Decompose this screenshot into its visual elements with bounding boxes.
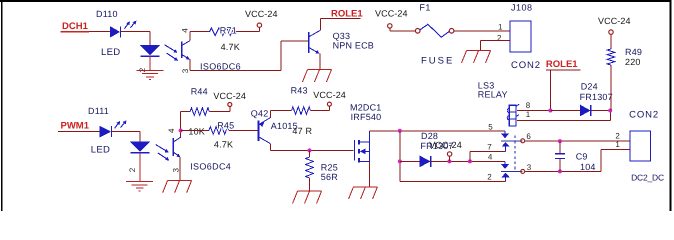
svg-text:R45: R45	[217, 120, 234, 130]
svg-text:R44: R44	[191, 86, 208, 96]
svg-text:Q42: Q42	[251, 109, 269, 119]
svg-text:4.7K: 4.7K	[221, 42, 240, 52]
svg-text:ROLE1: ROLE1	[546, 59, 578, 70]
svg-text:1: 1	[615, 140, 620, 149]
svg-text:1: 1	[526, 110, 531, 119]
svg-text:D24: D24	[581, 81, 598, 91]
svg-text:D111: D111	[88, 106, 109, 116]
svg-text:4: 4	[181, 28, 190, 33]
svg-text:FR1307: FR1307	[580, 92, 613, 102]
svg-text:D110: D110	[96, 9, 118, 19]
svg-text:VCC-24: VCC-24	[598, 16, 631, 26]
svg-text:VCC-24: VCC-24	[429, 140, 462, 150]
svg-text:R49: R49	[625, 47, 642, 57]
svg-text:R25: R25	[321, 162, 338, 172]
svg-text:F1: F1	[419, 3, 431, 13]
svg-text:220: 220	[625, 57, 641, 67]
svg-text:DC2_DC: DC2_DC	[631, 172, 664, 182]
svg-text:C9: C9	[576, 151, 588, 161]
svg-text:ROLE1: ROLE1	[331, 9, 363, 20]
svg-text:DCH1: DCH1	[62, 21, 89, 32]
svg-text:2: 2	[128, 167, 137, 172]
svg-text:R43: R43	[291, 85, 308, 95]
svg-text:R71: R71	[220, 25, 237, 35]
svg-text:FUSE: FUSE	[421, 55, 454, 66]
svg-text:VCC-24: VCC-24	[245, 9, 278, 19]
svg-text:6: 6	[526, 132, 531, 141]
svg-text:4.7K: 4.7K	[214, 139, 233, 149]
svg-text:7: 7	[487, 142, 492, 151]
svg-text:VCC-24: VCC-24	[375, 8, 408, 18]
svg-text:VCC-24: VCC-24	[213, 91, 246, 101]
svg-text:3: 3	[527, 163, 532, 172]
svg-text:3: 3	[171, 168, 180, 173]
svg-text:5: 5	[488, 122, 493, 131]
svg-text:PWM1: PWM1	[61, 120, 90, 131]
svg-text:10K: 10K	[188, 126, 205, 136]
svg-text:CON2: CON2	[629, 110, 659, 121]
svg-text:4: 4	[488, 153, 493, 162]
svg-text:56R: 56R	[321, 172, 338, 182]
svg-text:47 R: 47 R	[292, 126, 312, 136]
svg-text:VCC-24: VCC-24	[313, 90, 346, 100]
svg-text:104: 104	[580, 162, 596, 172]
svg-text:LED: LED	[91, 144, 110, 155]
svg-text:LED: LED	[101, 47, 120, 58]
svg-text:3: 3	[181, 68, 190, 73]
svg-text:J108: J108	[511, 3, 533, 13]
svg-text:4: 4	[167, 128, 176, 133]
svg-text:NPN ECB: NPN ECB	[333, 40, 374, 50]
svg-text:IRF540: IRF540	[351, 112, 382, 122]
svg-text:M2DC1: M2DC1	[350, 102, 382, 112]
svg-text:2: 2	[497, 34, 502, 43]
svg-text:CON2: CON2	[511, 60, 541, 71]
svg-text:ISO6DC4: ISO6DC4	[190, 161, 231, 171]
svg-text:2: 2	[487, 173, 492, 182]
svg-text:RELAY: RELAY	[478, 89, 508, 99]
svg-text:1: 1	[498, 23, 503, 32]
